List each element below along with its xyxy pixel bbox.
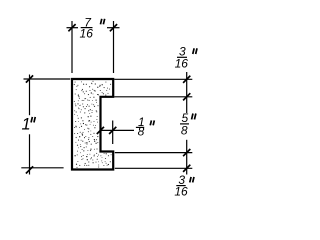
svg-text:8: 8 (138, 125, 145, 139)
svg-text:16: 16 (175, 56, 189, 70)
svg-text:1: 1 (22, 116, 31, 134)
svg-text:16: 16 (80, 26, 94, 40)
svg-text:8: 8 (181, 124, 188, 138)
svg-text:16: 16 (174, 185, 188, 199)
